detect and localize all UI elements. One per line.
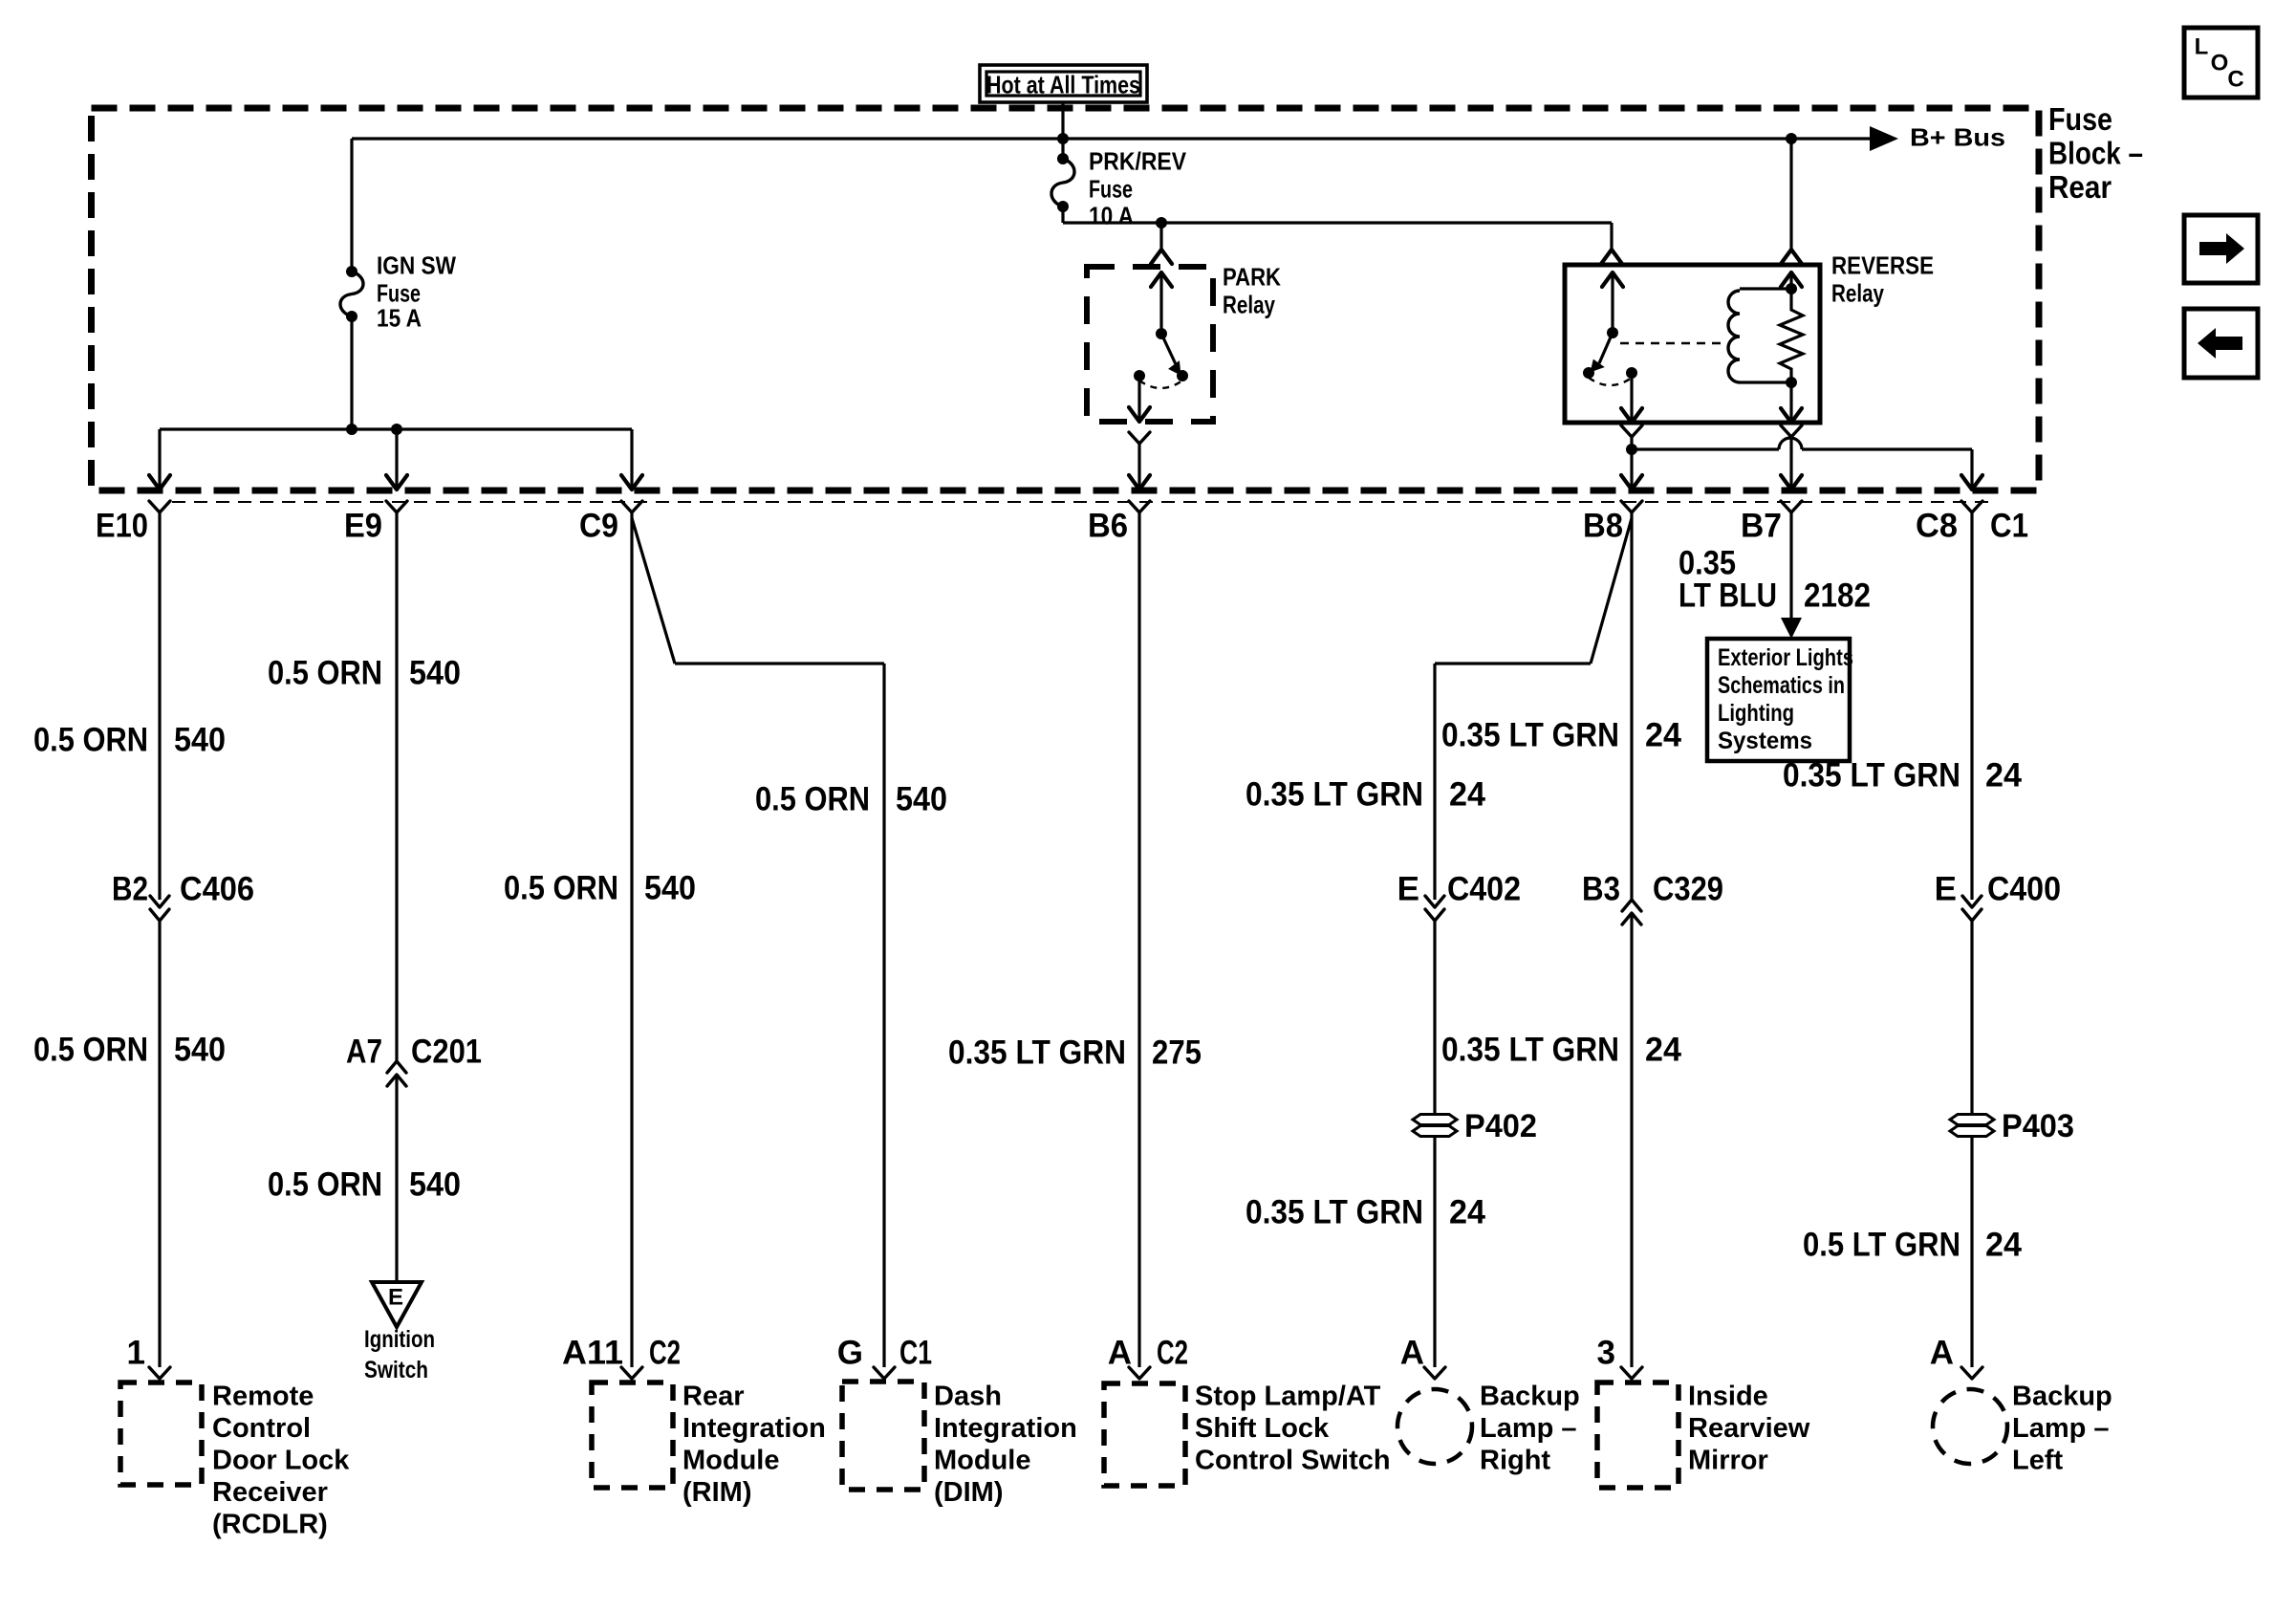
- wire bus to PRK/REV fuse: [1061, 139, 1064, 159]
- svg-text:Module: Module: [682, 1445, 780, 1475]
- svg-text:Shift Lock: Shift Lock: [1195, 1413, 1330, 1444]
- svg-text:Control Switch: Control Switch: [1195, 1445, 1391, 1475]
- grommet P403: [1950, 1115, 1994, 1125]
- wire E9 column: [395, 512, 398, 1061]
- svg-text:0.5 ORN: 0.5 ORN: [33, 722, 148, 759]
- REVERSE relay box: [1565, 265, 1820, 423]
- svg-text:IGN SW: IGN SW: [377, 250, 456, 279]
- junction bus / reverse relay coil feed: [1786, 133, 1797, 144]
- reverse relay coil: [1740, 287, 1791, 290]
- wire B+ bus horizontal: [352, 137, 1891, 140]
- svg-text:Rearview: Rearview: [1688, 1413, 1810, 1444]
- svg-text:E9: E9: [344, 508, 382, 545]
- reverse relay switch pin entry chevron: [1601, 250, 1622, 264]
- Hot at All Times feed box: [980, 65, 1147, 102]
- svg-text:540: 540: [644, 870, 696, 907]
- svg-text:24: 24: [1449, 776, 1486, 814]
- svg-text:24: 24: [1645, 1032, 1682, 1069]
- svg-text:Switch: Switch: [364, 1357, 428, 1383]
- svg-text:0.35 LT GRN: 0.35 LT GRN: [1245, 1194, 1423, 1231]
- wire park relay to B6 exit: [1137, 444, 1140, 490]
- park relay pin entry chevron: [1151, 250, 1172, 264]
- Inside Rearview Mirror box: [1597, 1382, 1679, 1488]
- svg-text:A7: A7: [346, 1034, 382, 1071]
- svg-text:PARK: PARK: [1223, 262, 1281, 291]
- svg-text:0.35 LT GRN: 0.35 LT GRN: [1245, 776, 1423, 814]
- svg-text:E10: E10: [96, 508, 148, 545]
- svg-text:3: 3: [1597, 1335, 1615, 1372]
- svg-text:Hot at All Times: Hot at All Times: [986, 70, 1140, 98]
- svg-text:(RCDLR): (RCDLR): [212, 1509, 328, 1539]
- svg-text:540: 540: [409, 1166, 461, 1204]
- svg-text:Exterior Lights: Exterior Lights: [1718, 644, 1853, 671]
- svg-text:L: L: [2195, 34, 2209, 60]
- junction branch bus / fuse wire: [346, 424, 357, 435]
- svg-text:C1: C1: [1990, 508, 2028, 545]
- svg-text:P402: P402: [1464, 1108, 1537, 1144]
- Backup Lamp Right lamp circle: [1397, 1389, 1472, 1464]
- reverse relay output pin B8 side: [1621, 425, 1642, 437]
- svg-text:Block –: Block –: [2048, 135, 2143, 170]
- svg-text:Receiver: Receiver: [212, 1477, 328, 1508]
- svg-text:Fuse: Fuse: [1089, 174, 1133, 203]
- previous page arrow box: [2184, 309, 2258, 378]
- Dash Integration Module (DIM) box: [842, 1382, 924, 1490]
- svg-text:B2: B2: [112, 871, 148, 908]
- svg-text:C400: C400: [1987, 871, 2061, 908]
- wire to C8 exit with hop over B7: [1632, 447, 1779, 450]
- grommet P402: [1413, 1115, 1457, 1125]
- wire to C9 exit: [630, 429, 633, 490]
- reverse relay coil pin entry chevron: [1781, 250, 1802, 264]
- svg-text:G: G: [837, 1335, 863, 1372]
- junction branch bus / E9: [391, 424, 402, 435]
- svg-text:E: E: [388, 1285, 403, 1311]
- wire B7 column to exterior lights: [1789, 512, 1792, 620]
- park relay switch: [1151, 272, 1172, 287]
- svg-text:E: E: [1397, 871, 1419, 908]
- svg-text:Lamp –: Lamp –: [1480, 1413, 1577, 1444]
- wire IGN SW fuse to branch bus: [350, 316, 353, 429]
- svg-text:0.35 LT GRN: 0.35 LT GRN: [948, 1034, 1126, 1072]
- wire from Hot at All Times to B+ bus: [1061, 102, 1064, 139]
- svg-text:P403: P403: [2002, 1108, 2074, 1144]
- connector pin B6: [1129, 501, 1150, 512]
- wire B7 through hop to exit: [1789, 437, 1792, 490]
- svg-text:0.35 LT GRN: 0.35 LT GRN: [1441, 1032, 1619, 1069]
- svg-text:C329: C329: [1653, 871, 1723, 908]
- svg-text:24: 24: [1985, 757, 2023, 795]
- park relay output pin: [1129, 432, 1150, 444]
- wire to E10 exit: [158, 429, 161, 490]
- svg-text:Dash: Dash: [934, 1381, 1002, 1411]
- wire C201 to ignition switch: [395, 1075, 398, 1281]
- svg-text:A11: A11: [562, 1335, 623, 1372]
- svg-text:Module: Module: [934, 1445, 1031, 1475]
- connector pin B8: [1621, 501, 1642, 512]
- svg-text:540: 540: [409, 655, 461, 692]
- wire C8 exit down: [1970, 449, 1973, 490]
- fuse PRK/REV 10A symbol: [1051, 159, 1074, 207]
- svg-text:0.5 ORN: 0.5 ORN: [268, 655, 382, 692]
- svg-text:C402: C402: [1447, 871, 1521, 908]
- svg-text:C406: C406: [180, 871, 254, 908]
- Backup Lamp Left lamp circle: [1933, 1389, 2007, 1464]
- svg-text:(RIM): (RIM): [682, 1477, 751, 1508]
- svg-text:Lamp –: Lamp –: [2012, 1413, 2110, 1444]
- reverse relay switch: [1602, 272, 1623, 287]
- wire B8 to backup lamp right branch: [1591, 518, 1632, 664]
- junction B8 / C8 feed: [1626, 444, 1637, 455]
- svg-text:0.35 LT GRN: 0.35 LT GRN: [1441, 717, 1619, 754]
- B+ Bus arrow: [1870, 126, 1898, 151]
- svg-text:C8: C8: [1916, 508, 1958, 545]
- wire relay output to B8 exit: [1630, 437, 1633, 490]
- svg-text:(DIM): (DIM): [934, 1477, 1003, 1508]
- next page arrow box: [2184, 215, 2258, 283]
- wire C406 to RCDLR: [158, 921, 161, 1367]
- svg-text:Left: Left: [2012, 1445, 2064, 1475]
- svg-text:C201: C201: [411, 1034, 482, 1071]
- reverse relay switch output wire: [1630, 373, 1633, 423]
- svg-text:24: 24: [1645, 717, 1682, 754]
- svg-text:Integration: Integration: [934, 1413, 1077, 1444]
- svg-text:PRK/REV: PRK/REV: [1089, 146, 1187, 175]
- svg-text:24: 24: [1985, 1227, 2023, 1264]
- reverse relay coil output wire: [1789, 382, 1792, 423]
- wire down to reverse relay switch pin: [1610, 223, 1613, 250]
- svg-text:275: 275: [1152, 1034, 1202, 1072]
- svg-text:E: E: [1935, 871, 1957, 908]
- svg-text:Relay: Relay: [1223, 290, 1275, 318]
- svg-text:Right: Right: [1480, 1445, 1550, 1475]
- svg-text:Mirror: Mirror: [1688, 1445, 1768, 1475]
- svg-text:Systems: Systems: [1718, 728, 1812, 754]
- wire C9 column: [630, 512, 633, 1367]
- PARK relay dashed box: [1087, 267, 1213, 422]
- svg-text:1: 1: [127, 1335, 145, 1372]
- svg-text:C: C: [2227, 67, 2243, 93]
- park relay output wire: [1137, 376, 1140, 422]
- svg-text:C2: C2: [649, 1335, 681, 1372]
- svg-text:Control: Control: [212, 1413, 311, 1444]
- svg-text:Relay: Relay: [1831, 278, 1884, 307]
- wire B8 column: [1630, 512, 1633, 900]
- connector pin C8/C1: [1961, 501, 1982, 512]
- svg-text:Backup: Backup: [2012, 1381, 2112, 1411]
- connector pin B7: [1781, 501, 1802, 512]
- svg-text:0.5 ORN: 0.5 ORN: [268, 1166, 382, 1204]
- wire bus to reverse relay coil pin: [1789, 139, 1792, 250]
- wire down to park relay pin: [1159, 223, 1162, 250]
- svg-text:2182: 2182: [1804, 577, 1871, 615]
- wire bus to IGN SW fuse: [350, 139, 353, 272]
- svg-text:540: 540: [174, 722, 226, 759]
- svg-text:A: A: [1400, 1335, 1424, 1372]
- svg-text:B3: B3: [1582, 871, 1620, 908]
- svg-text:Inside: Inside: [1688, 1381, 1768, 1411]
- svg-text:0.5 ORN: 0.5 ORN: [504, 870, 618, 907]
- fuse block - rear dashed boundary box: [92, 108, 2040, 490]
- connector face dashed line: [172, 501, 1993, 503]
- svg-text:LT BLU: LT BLU: [1679, 577, 1777, 615]
- svg-text:Door Lock: Door Lock: [212, 1445, 350, 1475]
- wire B6 column: [1137, 512, 1140, 1367]
- connector pin E9: [386, 501, 407, 512]
- connector pin C9: [621, 501, 642, 512]
- svg-text:C1: C1: [899, 1335, 932, 1372]
- LOC reference box: [2184, 28, 2258, 98]
- arrow into exterior lights box: [1781, 618, 1802, 639]
- svg-text:REVERSE: REVERSE: [1831, 250, 1934, 279]
- svg-text:15 A: 15 A: [377, 303, 422, 332]
- svg-text:0.5 ORN: 0.5 ORN: [755, 781, 870, 818]
- svg-text:C2: C2: [1157, 1335, 1188, 1372]
- svg-text:0.35 LT GRN: 0.35 LT GRN: [1783, 757, 1960, 795]
- svg-text:540: 540: [896, 781, 947, 818]
- svg-text:B6: B6: [1088, 508, 1128, 545]
- reverse relay coil pin to B7: [1781, 425, 1802, 437]
- reverse relay actuate dashed link: [1620, 342, 1727, 344]
- wire branch bus from IGN SW fuse: [160, 427, 632, 430]
- svg-text:0.5 ORN: 0.5 ORN: [33, 1032, 148, 1069]
- Stop Lamp/AT Shift Lock Control Switch box: [1104, 1383, 1185, 1486]
- wire to E9 exit: [395, 429, 398, 490]
- svg-text:Remote: Remote: [212, 1381, 314, 1411]
- wire E10 column: [158, 512, 161, 900]
- junction bus / PRK-REV fuse: [1057, 133, 1069, 144]
- svg-text:540: 540: [174, 1032, 226, 1069]
- svg-text:B7: B7: [1741, 508, 1782, 545]
- svg-text:Schematics in: Schematics in: [1718, 672, 1845, 699]
- junction park relay tap: [1156, 217, 1167, 229]
- svg-text:B8: B8: [1583, 508, 1623, 545]
- wire C9 to DIM branch: [632, 518, 675, 664]
- svg-text:Lighting: Lighting: [1718, 700, 1794, 727]
- Exterior Lights Schematics note box: [1707, 639, 1850, 761]
- ground / ignition switch symbol E: [372, 1282, 422, 1327]
- Rear Integration Module (RIM) box: [592, 1382, 673, 1488]
- svg-text:Rear: Rear: [2048, 169, 2112, 205]
- svg-text:10 A: 10 A: [1089, 201, 1134, 229]
- fuse IGN SW 15A symbol: [340, 272, 363, 316]
- connector pin E10: [149, 501, 170, 512]
- svg-text:Fuse: Fuse: [2048, 101, 2112, 137]
- svg-text:B+ Bus: B+ Bus: [1910, 122, 2005, 151]
- reverse relay resistor: [1780, 289, 1803, 382]
- svg-text:O: O: [2211, 51, 2229, 76]
- wire C1 column: [1970, 512, 1973, 900]
- svg-text:C9: C9: [579, 508, 618, 545]
- svg-text:Stop Lamp/AT: Stop Lamp/AT: [1195, 1381, 1381, 1411]
- svg-text:Ignition: Ignition: [364, 1326, 435, 1353]
- svg-text:A: A: [1930, 1335, 1954, 1372]
- svg-text:Integration: Integration: [682, 1413, 826, 1444]
- svg-text:24: 24: [1449, 1194, 1486, 1231]
- wire PRK/REV fuse output: [1061, 207, 1064, 223]
- svg-text:0.5 LT GRN: 0.5 LT GRN: [1803, 1227, 1960, 1264]
- wire fuse output horizontal to reverse relay: [1063, 221, 1612, 224]
- Remote Control Door Lock Receiver (RCDLR) box: [120, 1382, 202, 1485]
- svg-text:Backup: Backup: [1480, 1381, 1580, 1411]
- svg-text:Rear: Rear: [682, 1381, 745, 1411]
